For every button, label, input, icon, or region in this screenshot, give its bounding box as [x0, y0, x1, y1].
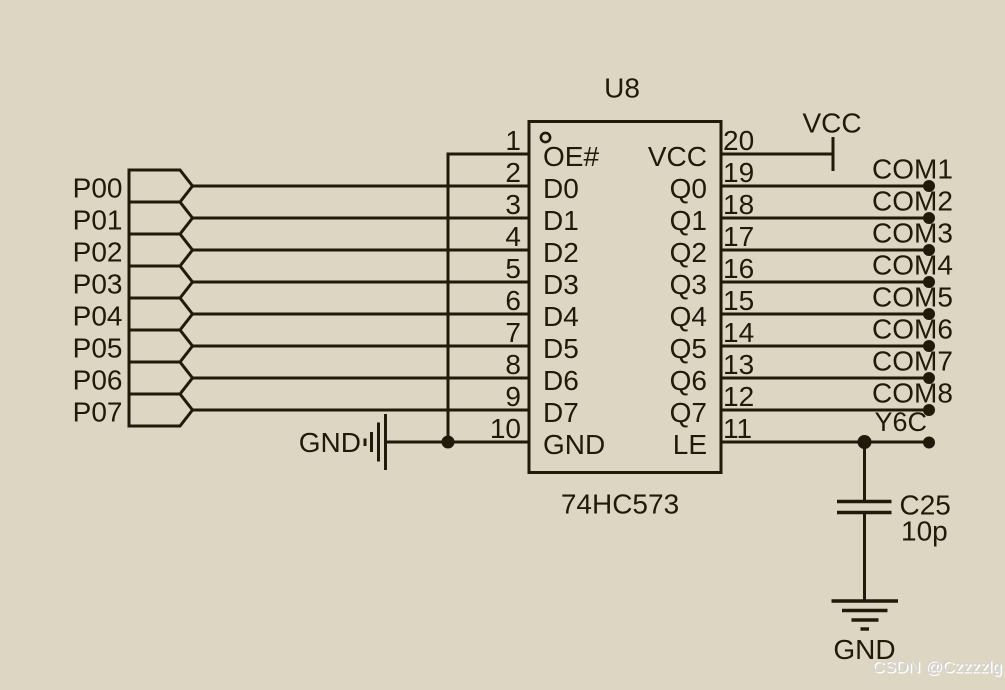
svg-text:74HC573: 74HC573	[561, 489, 679, 520]
svg-text:COM6: COM6	[872, 314, 953, 345]
ground symbol at C25	[832, 601, 899, 629]
wire Q0 (pin 19) to COM1	[721, 185, 929, 188]
port P02 flag	[129, 234, 193, 266]
svg-text:7: 7	[505, 317, 521, 348]
node dot COM2	[923, 212, 935, 224]
svg-text:10: 10	[490, 413, 521, 444]
svg-text:LE: LE	[673, 429, 707, 460]
svg-text:U8: U8	[604, 73, 640, 104]
wire pin 1 OE#	[448, 153, 529, 156]
svg-text:Q2: Q2	[670, 237, 707, 268]
node dot COM5	[923, 308, 935, 320]
wire P05 to D5 (pin 7)	[192, 345, 529, 348]
wire Q5 (pin 14) to COM6	[721, 345, 929, 348]
IC U8 body	[529, 122, 721, 473]
wire GND to pin 10	[386, 441, 530, 444]
svg-text:Q1: Q1	[670, 205, 707, 236]
node dot COM1	[923, 180, 935, 192]
wire C25 to GND	[863, 514, 866, 601]
svg-text:D5: D5	[543, 333, 579, 364]
svg-text:2: 2	[505, 157, 521, 188]
svg-text:Y6C: Y6C	[875, 407, 928, 437]
svg-text:Q5: Q5	[670, 333, 707, 364]
node dot Y6C	[923, 437, 935, 449]
svg-text:4: 4	[505, 221, 521, 252]
svg-text:P03: P03	[73, 269, 123, 300]
svg-text:P06: P06	[73, 365, 123, 396]
wire LE (pin 11)	[721, 441, 929, 444]
svg-text:1: 1	[505, 125, 521, 156]
svg-text:9: 9	[505, 381, 521, 412]
wire P02 to D2 (pin 4)	[192, 249, 529, 252]
svg-text:D0: D0	[543, 173, 579, 204]
svg-text:VCC: VCC	[648, 141, 707, 172]
wire Q4 (pin 15) to COM5	[721, 313, 929, 316]
node dot COM8	[923, 404, 935, 416]
svg-text:P04: P04	[73, 301, 123, 332]
junction at OE#/GND node	[442, 436, 455, 449]
svg-text:COM2: COM2	[872, 186, 953, 217]
port P05 flag	[129, 330, 193, 362]
wire Q3 (pin 16) to COM4	[721, 281, 929, 284]
wire LE node to C25	[863, 442, 866, 500]
svg-text:6: 6	[505, 285, 521, 316]
wire P00 to D0 (pin 2)	[192, 185, 529, 188]
port P00 flag	[129, 170, 193, 202]
svg-text:COM7: COM7	[872, 346, 953, 377]
wire OE# to GND vertical	[447, 153, 450, 443]
svg-text:COM8: COM8	[872, 378, 953, 409]
ground symbol at OE#/pin10	[365, 414, 386, 470]
svg-text:3: 3	[505, 189, 521, 220]
svg-text:Q4: Q4	[670, 301, 707, 332]
svg-text:Q7: Q7	[670, 397, 707, 428]
svg-text:8: 8	[505, 349, 521, 380]
svg-text:15: 15	[723, 285, 754, 316]
wire pin 20 to VCC	[721, 153, 833, 156]
svg-text:20: 20	[723, 125, 754, 156]
svg-text:Q0: Q0	[670, 173, 707, 204]
svg-text:12: 12	[723, 381, 754, 412]
svg-text:CSDN @Czzzzlg: CSDN @Czzzzlg	[872, 657, 1002, 676]
svg-text:D2: D2	[543, 237, 579, 268]
active-low bubble on pin 1	[541, 133, 550, 142]
wire P01 to D1 (pin 3)	[192, 217, 529, 220]
svg-text:D6: D6	[543, 365, 579, 396]
node dot COM6	[923, 340, 935, 352]
svg-text:P01: P01	[73, 205, 123, 236]
wire P04 to D4 (pin 6)	[192, 313, 529, 316]
wire Q7 (pin 12) to COM8	[721, 409, 929, 412]
svg-text:D4: D4	[543, 301, 579, 332]
node dot COM3	[923, 244, 935, 256]
port P04 flag	[129, 298, 193, 330]
svg-text:GND: GND	[299, 427, 361, 458]
svg-text:Q6: Q6	[670, 365, 707, 396]
svg-text:17: 17	[723, 221, 754, 252]
wire Q6 (pin 13) to COM7	[721, 377, 929, 380]
svg-text:18: 18	[723, 189, 754, 220]
svg-text:VCC: VCC	[802, 108, 861, 139]
wire P07 to D7 (pin 9)	[192, 409, 529, 412]
port P06 flag	[129, 362, 193, 394]
svg-text:GND: GND	[543, 429, 605, 460]
svg-text:OE#: OE#	[543, 141, 599, 172]
junction at LE/C25 node	[858, 435, 872, 449]
port P03 flag	[129, 266, 193, 298]
svg-text:14: 14	[723, 317, 754, 348]
svg-text:COM1: COM1	[872, 154, 953, 185]
node dot COM4	[923, 276, 935, 288]
svg-text:P02: P02	[73, 237, 123, 268]
wire Q2 (pin 17) to COM3	[721, 249, 929, 252]
svg-text:5: 5	[505, 253, 521, 284]
svg-text:19: 19	[723, 157, 754, 188]
wire Q1 (pin 18) to COM2	[721, 217, 929, 220]
VCC power bar symbol	[832, 137, 835, 171]
svg-text:10p: 10p	[901, 516, 948, 547]
capacitor C25	[837, 502, 892, 513]
svg-text:D7: D7	[543, 397, 579, 428]
port P07 flag	[129, 394, 193, 426]
svg-text:COM5: COM5	[872, 282, 953, 313]
svg-text:13: 13	[723, 349, 754, 380]
svg-text:11: 11	[723, 413, 752, 444]
wire P06 to D6 (pin 8)	[192, 377, 529, 380]
svg-text:P00: P00	[73, 173, 123, 204]
node dot COM7	[923, 372, 935, 384]
svg-text:P07: P07	[73, 397, 123, 428]
svg-text:Q3: Q3	[670, 269, 707, 300]
wire P03 to D3 (pin 5)	[192, 281, 529, 284]
svg-text:16: 16	[723, 253, 754, 284]
svg-text:P05: P05	[73, 333, 123, 364]
port P01 flag	[129, 202, 193, 234]
svg-text:COM4: COM4	[872, 250, 953, 281]
svg-text:COM3: COM3	[872, 218, 953, 249]
svg-text:D3: D3	[543, 269, 579, 300]
svg-text:D1: D1	[543, 205, 579, 236]
